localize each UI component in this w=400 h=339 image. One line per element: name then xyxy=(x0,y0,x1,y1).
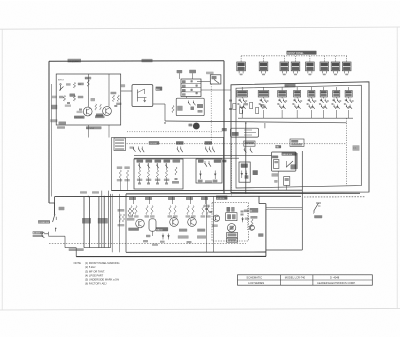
label under Q12 xyxy=(197,229,205,232)
pushbutton switch box xyxy=(181,79,201,97)
marks below legend box xyxy=(130,147,135,149)
resistor bank x=128-135 xyxy=(128,208,130,216)
dotted linkage y=131.8 xyxy=(127,131,223,133)
output wire second conductor xyxy=(266,208,302,210)
bottom small marks xyxy=(143,240,148,242)
labels below amp block xyxy=(57,126,65,129)
extra parts left inside range board xyxy=(233,104,236,110)
oscillator range column 4 xyxy=(164,160,171,163)
AC plug symbol xyxy=(44,233,48,235)
rectifier cluster D15 xyxy=(205,197,207,205)
selector jacks group 2 xyxy=(176,147,178,149)
power switch SW2 xyxy=(54,203,56,214)
dark connector jack TB xyxy=(193,123,200,130)
svg-text:(2) 5 kHz: (2) 5 kHz xyxy=(85,265,96,269)
power board bottom y=252.3 xyxy=(126,251,266,253)
cable block box xyxy=(272,152,296,171)
connector P1 xyxy=(240,56,242,62)
40 ohm label cluster xyxy=(250,208,259,213)
EA2 label xyxy=(275,145,281,148)
label under Q2 xyxy=(95,115,105,118)
POWER TRANS label xyxy=(69,248,84,251)
power transistor Q12 xyxy=(188,218,197,227)
source diode pair xyxy=(242,217,244,222)
range linkage dashed vertical x=346.5 xyxy=(346,118,348,185)
power board left edge x=126 xyxy=(125,194,127,252)
svg-text:INPUT: INPUT xyxy=(58,80,65,82)
svg-text:FRONT PANEL: FRONT PANEL xyxy=(287,52,304,55)
source left label xyxy=(212,224,218,227)
label T-1 on top border xyxy=(68,59,82,63)
transformer bottom wire xyxy=(84,247,111,249)
vertical rail x=213.4 xyxy=(212,197,214,253)
CABLE 500 label xyxy=(282,152,297,155)
connector mark on left bus xyxy=(51,105,57,110)
main board outline top edge xyxy=(49,60,224,62)
oscillator range column 3 xyxy=(155,160,162,163)
oscillator block box xyxy=(134,159,183,189)
LEVEL label on bus xyxy=(176,141,184,144)
bottom label 25V xyxy=(197,235,206,238)
parts right of source box xyxy=(250,216,257,219)
connector P3 xyxy=(283,56,285,62)
bus wire y=123 xyxy=(165,121,347,123)
selector jacks group 4 xyxy=(243,148,245,150)
resistor R1 with label xyxy=(73,83,75,89)
bottom extra diode marks xyxy=(146,235,150,237)
battery 4.5V marks xyxy=(227,207,231,212)
label on top border x=142 xyxy=(142,59,153,62)
svg-text:2SC1000: 2SC1000 xyxy=(75,117,84,119)
MA150 label xyxy=(156,227,168,231)
bottom border y=256.6 xyxy=(76,255,266,257)
relay box in source xyxy=(226,213,237,221)
capacitor C1 xyxy=(67,102,70,104)
EA1 output wire right then down xyxy=(153,103,165,105)
svg-text:L.C: L.C xyxy=(353,147,357,149)
connector P4 xyxy=(295,56,297,62)
outline step at bottom left xyxy=(49,202,55,204)
meter M1 circle xyxy=(227,224,235,232)
resistor R4 top bias xyxy=(87,80,89,87)
input jack J1 xyxy=(60,85,62,91)
SOURCE label xyxy=(216,196,227,200)
label under Q10 xyxy=(128,228,139,231)
left inner bus wire x=51.6 xyxy=(51,84,53,197)
svg-text:SOURCE: SOURCE xyxy=(216,198,225,200)
diode D4 xyxy=(214,171,216,180)
capacitor C2 xyxy=(79,108,82,110)
selector jacks group 1 xyxy=(138,147,140,149)
wire from amp block down x=109 xyxy=(108,125,110,138)
power linkage dashed y=243.8 xyxy=(49,243,246,245)
rectifier cluster D13 xyxy=(172,197,174,205)
svg-text:POWER SW: POWER SW xyxy=(38,222,49,224)
L.C label xyxy=(353,145,360,151)
frequency legend box xyxy=(114,138,126,151)
transformer secondary label 7.5V xyxy=(98,218,108,224)
range switch module S8 xyxy=(345,91,352,98)
TP label xyxy=(91,98,96,101)
rectifier cluster D14 xyxy=(190,197,192,205)
LTP label xyxy=(258,233,263,236)
tick on left bus xyxy=(52,96,57,99)
border label blob x=222 y=128 xyxy=(222,128,227,131)
wires into power rail from osc section xyxy=(119,178,121,191)
TR trimmer box xyxy=(210,75,221,84)
main board outline right edge x=224 xyxy=(223,61,225,194)
range switch module S2 xyxy=(258,91,269,98)
resistor R6 right pair xyxy=(117,95,119,102)
ground test point symbol xyxy=(314,203,319,212)
long wire down x=245.8 xyxy=(245,123,247,194)
parts below cable block xyxy=(272,173,279,176)
cable block center dark part xyxy=(291,164,297,169)
transformer top labels xyxy=(80,191,87,193)
source bottom rect 1 xyxy=(227,233,238,238)
resistor R2 xyxy=(73,96,75,102)
LCR jack rounded box xyxy=(231,128,259,137)
svg-text:B1 1/2W: B1 1/2W xyxy=(87,128,95,130)
connector P5 xyxy=(309,56,311,62)
power transistor Q10 xyxy=(136,219,145,228)
horizontal rail y=190.5 xyxy=(112,189,303,191)
bottom left label xyxy=(59,122,67,125)
dotted linkage from TR box down xyxy=(210,84,212,144)
cluster 470k xyxy=(70,94,76,97)
resistor bank x=120-124 xyxy=(119,214,121,222)
label under Q11 xyxy=(179,229,187,232)
power transistor Q11 xyxy=(170,218,179,227)
capacitor C3 right xyxy=(114,105,117,107)
emitter resistor R7 xyxy=(95,104,97,110)
transistor Q2 2SC1000 xyxy=(103,107,112,116)
wire pushbutton out y=90 xyxy=(201,89,231,91)
left small caps in source area xyxy=(205,208,208,210)
horizontal rail y=193.8 xyxy=(126,192,360,195)
range switch module S6 xyxy=(320,91,327,98)
AC 100V label xyxy=(33,231,44,234)
bottom parts diodes xyxy=(162,234,164,240)
thermistor label xyxy=(241,164,248,168)
diode D3 xyxy=(200,171,202,180)
source transistor Q13 xyxy=(213,215,219,221)
svg-text:MA150: MA150 xyxy=(156,229,163,232)
thermistor bottom mark xyxy=(245,175,249,179)
dashed linkage x=231.5 xyxy=(231,144,233,196)
mode dashed bus y=143.8 xyxy=(127,143,347,145)
range switch module S3 xyxy=(278,91,287,98)
selector jacks group 3 xyxy=(205,147,207,149)
resistor R5 right pair xyxy=(112,95,114,102)
POWER SW label xyxy=(38,220,50,223)
svg-text:MODEL LCR-740: MODEL LCR-740 xyxy=(285,276,306,280)
part x=173 vertical xyxy=(172,106,174,113)
small part above pushbutton box x=179 xyxy=(177,70,183,73)
svg-text:(1) FRONT PANEL MARKING: (1) FRONT PANEL MARKING xyxy=(85,261,120,265)
label near jack xyxy=(66,83,71,85)
svg-text:47k: 47k xyxy=(85,78,88,80)
parallel wires y=158.2 xyxy=(134,157,239,159)
parts left edge of range board xyxy=(229,100,232,102)
source bottom rect 2 xyxy=(227,238,238,242)
main board outline left edge x=49 xyxy=(48,61,50,203)
osc-det relay block box xyxy=(196,159,222,183)
TR box label above xyxy=(206,72,214,75)
svg-text:(5) UNDERSIDE MARK a 5%: (5) UNDERSIDE MARK a 5% xyxy=(85,278,120,282)
svg-text:OSC/DET: OSC/DET xyxy=(149,143,158,145)
connector P8 xyxy=(346,56,348,62)
dashed inner vertical x=247.7 xyxy=(247,206,249,230)
osc-det block labels xyxy=(198,160,204,163)
blob between transistors xyxy=(96,114,103,117)
OSC DET label on bus xyxy=(149,141,159,144)
range switch module S1 xyxy=(237,91,248,98)
cable block right dark part xyxy=(295,153,298,169)
bottom label 7.5V xyxy=(178,235,189,238)
svg-text:NOTE: NOTE xyxy=(74,261,81,265)
EA5 label xyxy=(272,156,278,159)
svg-text:(6) FACTORY ADJ: (6) FACTORY ADJ xyxy=(85,282,107,286)
wire node vertical x=88.3 xyxy=(87,74,89,107)
svg-text:AC100V: AC100V xyxy=(33,232,41,235)
svg-text:(3) MF OR TANT.: (3) MF OR TANT. xyxy=(85,269,105,273)
oscillator range column 1 xyxy=(137,160,144,163)
EA1 internal transistor symbol xyxy=(137,90,139,102)
front panel dashed bus xyxy=(241,55,347,57)
wire amp out to EA1 y=91 xyxy=(121,90,132,92)
transformer secondary label 24V xyxy=(82,218,91,224)
pushbutton dark contacts xyxy=(182,80,186,83)
svg-text:40: 40 xyxy=(250,210,252,212)
wire bottom y=250 right part xyxy=(266,249,302,251)
vertical rail x=206.6 xyxy=(206,197,208,253)
label 2SC1000 under Q1 xyxy=(74,116,85,119)
SOURCE dashed box xyxy=(212,203,249,241)
SW label on inner box top xyxy=(285,84,296,87)
transformer T1 windings xyxy=(83,197,85,248)
resistor R3 xyxy=(63,96,65,102)
source caps 47u xyxy=(241,210,244,212)
emitter resistor R8 xyxy=(100,104,102,110)
svg-text:CABLE 500: CABLE 500 xyxy=(282,153,292,156)
svg-text:SCHEMATIC: SCHEMATIC xyxy=(246,276,262,280)
label on left bus xyxy=(50,119,57,122)
thermistor block box xyxy=(239,162,250,182)
wire y=81.5 to TR box xyxy=(197,81,210,83)
rectifier cluster D11 xyxy=(133,197,135,205)
transformer core lines xyxy=(108,191,110,248)
wire bus to jack box xyxy=(264,123,266,128)
oscillator right column parts xyxy=(173,160,181,163)
regulator capsule MA150 xyxy=(149,219,156,231)
bus label 3 xyxy=(205,141,213,144)
title block table xyxy=(238,275,373,285)
wire node vertical x=109 xyxy=(108,74,110,107)
osc-det switches xyxy=(204,161,206,163)
transistor Q1 2SC1000 xyxy=(83,107,92,116)
switch bus wire y=118.2 xyxy=(238,117,353,119)
range switch module S4 xyxy=(294,91,301,98)
svg-text:D -4048: D -4048 xyxy=(330,276,340,280)
input amp block outline xyxy=(56,74,121,125)
rectifier cluster D12 xyxy=(149,197,151,205)
sheet top edge xyxy=(0,27,400,29)
svg-text:T-1 (2) AMP: T-1 (2) AMP xyxy=(68,60,80,63)
range switch module S7 xyxy=(333,91,340,98)
parallel wires y=155.3 xyxy=(134,154,272,156)
output wire y=207.5 xyxy=(266,207,302,209)
sheet left edge xyxy=(1,29,3,310)
NOTE legend xyxy=(74,261,120,286)
diode D5 xyxy=(241,171,243,179)
resistor pair left of oscillator xyxy=(119,170,121,178)
wires down from rails x=102 x=108 xyxy=(101,191,103,248)
bus label 4 box xyxy=(244,141,255,146)
cable block left rect xyxy=(274,160,279,169)
relay box below pushbuttons xyxy=(176,98,204,115)
FRONT PANEL label xyxy=(287,51,317,55)
dashed rail right of power section xyxy=(304,196,365,198)
wire from amp block down x=88 xyxy=(87,125,89,138)
EA1 module rounded box xyxy=(132,85,153,107)
transistor Q14 right xyxy=(249,225,254,230)
range switch module S5 xyxy=(308,91,315,98)
part right of thermistor xyxy=(253,170,258,175)
E45C label xyxy=(314,215,322,218)
connector P7 xyxy=(335,56,337,62)
EA1 label xyxy=(156,87,163,91)
osc-det bottom label xyxy=(205,180,212,183)
sheet bottom edge xyxy=(0,309,400,311)
svg-text:LEADER ELECTRONICS CORP.: LEADER ELECTRONICS CORP. xyxy=(317,281,355,285)
range switch board inner box xyxy=(236,85,361,188)
wire plug to transformer xyxy=(48,235,65,237)
sheet right edge xyxy=(396,27,398,309)
bus label 5 box xyxy=(290,139,304,146)
svg-text:LCR SERIES: LCR SERIES xyxy=(248,281,264,285)
range switch board outer box xyxy=(231,82,369,193)
label right top C+ xyxy=(120,84,125,87)
long wire down x=302.3 xyxy=(301,151,303,250)
diode D6 xyxy=(245,171,247,179)
svg-text:1M: 1M xyxy=(78,84,81,86)
power section top edge y=196.6 xyxy=(55,195,301,197)
dark mark on border x=224 xyxy=(223,160,227,163)
power board right boundary step xyxy=(258,196,260,203)
small part above pushbutton box x=192 xyxy=(189,70,196,73)
cable block switch xyxy=(286,161,293,167)
svg-text:(4) LPOE PART: (4) LPOE PART xyxy=(85,273,104,277)
oscillator range column 2 xyxy=(146,160,153,163)
svg-text:SW: SW xyxy=(285,86,288,88)
connector P6 xyxy=(323,56,325,62)
wires cable block to rail xyxy=(277,171,279,190)
svg-text:EA2: EA2 xyxy=(276,146,280,149)
junction dots on rails xyxy=(164,122,165,123)
oscillator section outline xyxy=(112,138,224,191)
connector P2 xyxy=(263,56,265,62)
fuse F1 xyxy=(59,207,65,210)
